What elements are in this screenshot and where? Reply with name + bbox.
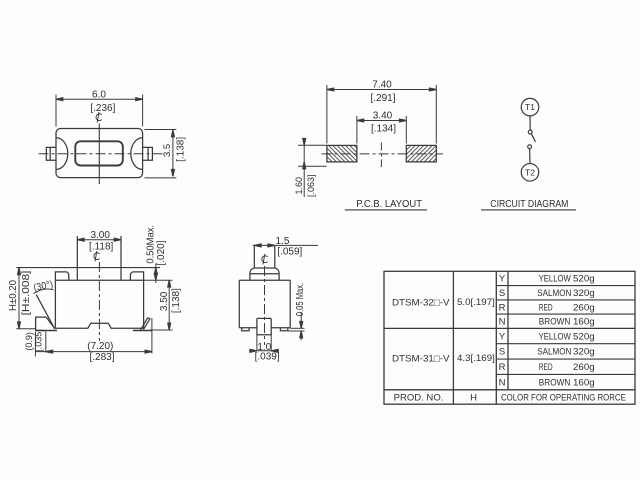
- wire contact to T2: [529, 149, 531, 164]
- svg-text:R: R: [499, 302, 506, 313]
- svg-text:0.05 Max.: 0.05 Max.: [295, 283, 306, 317]
- footer divider: [384, 389, 635, 391]
- svg-text:3.5: 3.5: [162, 144, 173, 157]
- collar top: [250, 273, 279, 275]
- horizontal centerline top view: [39, 153, 165, 155]
- dimension 1.60: [298, 139, 327, 197]
- svg-text:P.C.B. LAYOUT: P.C.B. LAYOUT: [356, 199, 422, 210]
- right foot seating line: [133, 330, 152, 332]
- svg-text:YELLOW: YELLOW: [539, 274, 571, 285]
- vertical centerline pcb: [380, 143, 382, 168]
- svg-text:PROD. NO.: PROD. NO.: [394, 392, 444, 403]
- svg-text:Y: Y: [499, 331, 506, 342]
- svg-text:RED: RED: [539, 362, 553, 373]
- svg-text:260g: 260g: [573, 362, 595, 373]
- underline pcb title: [345, 209, 427, 211]
- svg-text:R: R: [499, 362, 506, 373]
- svg-text:1.5: 1.5: [276, 236, 290, 247]
- svg-text:RED: RED: [539, 302, 553, 313]
- horizontal centerline pcb: [322, 153, 444, 155]
- center button rounded rect: [75, 141, 123, 165]
- dimension 6.0 line: [56, 95, 143, 127]
- left foot seating line: [36, 330, 57, 332]
- svg-text:6.0: 6.0: [92, 90, 106, 101]
- dimension 1.5 top: [253, 244, 319, 246]
- contact node upper: [528, 130, 532, 134]
- svg-text:T2: T2: [525, 167, 535, 177]
- svg-text:3.40: 3.40: [373, 110, 393, 121]
- body right side: [143, 280, 145, 329]
- dimension 3.5 line: [145, 130, 177, 178]
- svg-text:BROWN: BROWN: [539, 377, 571, 388]
- svg-text:260g: 260g: [573, 302, 595, 313]
- svg-text:3.00: 3.00: [90, 230, 110, 241]
- right foot side view: [280, 328, 287, 331]
- row group divider: [384, 327, 635, 329]
- right semicircle recess: [131, 138, 143, 170]
- underline circuit title: [481, 209, 576, 211]
- svg-text:N: N: [499, 317, 506, 328]
- left lead 30 deg slant: [36, 295, 54, 329]
- right solder pad hatched: [406, 145, 436, 162]
- centerline symbol front view: [94, 251, 100, 262]
- svg-text:[H±.008]: [H±.008]: [21, 270, 32, 315]
- svg-text:[.059]: [.059]: [277, 246, 302, 257]
- vertical centerline top view: [98, 124, 100, 185]
- svg-text:[.063]: [.063]: [306, 174, 316, 197]
- dimension 7.40: [327, 85, 436, 144]
- right terminal tab: [143, 147, 153, 160]
- svg-text:YELLOW: YELLOW: [539, 331, 571, 342]
- svg-text:S: S: [499, 288, 505, 299]
- centerline symbol side view: [262, 254, 268, 265]
- svg-text:H±0.20: H±0.20: [8, 280, 19, 311]
- dimension 3.50 vertical: [168, 280, 170, 330]
- svg-text:320g: 320g: [573, 288, 595, 299]
- svg-text:4.3[.169]: 4.3[.169]: [457, 353, 495, 364]
- terminal T1 circle: [521, 98, 539, 116]
- svg-text:5.0[.197]: 5.0[.197]: [457, 297, 495, 308]
- left foot side view: [242, 328, 249, 331]
- vertical centerline side view: [264, 266, 266, 345]
- left solder pad hatched: [327, 145, 357, 162]
- svg-text:Y: Y: [499, 274, 506, 285]
- 0.05 extension lines: [290, 327, 304, 329]
- dimension 1.0 extensions: [256, 335, 258, 352]
- collar right fillet: [275, 268, 279, 280]
- right top bump: [130, 272, 143, 280]
- svg-text:SALMON: SALMON: [537, 347, 571, 358]
- body bottom with center boss: [55, 323, 143, 328]
- svg-text:[.138]: [.138]: [171, 288, 182, 313]
- 0.05 dimension arrows: [300, 312, 302, 328]
- svg-text:COLOR FOR OPERATING RORCE: COLOR FOR OPERATING RORCE: [501, 392, 626, 403]
- body sides: [238, 280, 240, 328]
- switch arm: [531, 134, 535, 142]
- left top bump: [55, 272, 68, 280]
- dimension 1.0 line: [249, 350, 279, 352]
- svg-text:1.60: 1.60: [294, 177, 304, 195]
- bottom extension 3.50: [150, 329, 173, 331]
- svg-text:N: N: [499, 377, 506, 388]
- body left side: [54, 280, 56, 328]
- left lead inner slant: [46, 317, 55, 329]
- svg-text:DTSM-31□-V: DTSM-31□-V: [392, 354, 450, 365]
- column line 2: [495, 271, 497, 404]
- svg-text:7.40: 7.40: [372, 80, 392, 91]
- button sides front view: [76, 236, 78, 280]
- dimension 3.40: [357, 116, 406, 144]
- contact node lower: [528, 145, 532, 149]
- collar left fillet: [250, 268, 254, 280]
- stem step line: [254, 267, 274, 269]
- sub row lines group 1: [496, 285, 635, 287]
- centerline symbol top view: [96, 112, 102, 123]
- column line 3: [507, 271, 509, 390]
- left lead tip outline: [36, 317, 47, 330]
- svg-text:(30°): (30°): [33, 279, 54, 294]
- left terminal tab: [46, 147, 56, 160]
- svg-text:[.138]: [.138]: [176, 137, 187, 162]
- center locating boss: [257, 318, 271, 334]
- dimension 0.50Max vertical line: [155, 264, 157, 284]
- wire T1 to contact: [529, 116, 531, 130]
- svg-text:[.236]: [.236]: [90, 103, 115, 114]
- dimension H left: [18, 268, 20, 329]
- (7.20) dimension line: [36, 351, 152, 353]
- svg-text:160g: 160g: [573, 317, 595, 328]
- svg-text:3.50: 3.50: [159, 291, 170, 311]
- body bottom: [239, 327, 290, 329]
- terminal T2 circle: [521, 164, 539, 182]
- svg-text:[.283]: [.283]: [89, 352, 114, 363]
- svg-text:320g: 320g: [573, 347, 595, 358]
- (7.20) right extension: [151, 318, 153, 353]
- bottom extension line H: [16, 328, 35, 330]
- vertical centerline front view: [98, 262, 100, 341]
- column line 1: [452, 271, 454, 404]
- body top edge: [55, 279, 143, 281]
- left semicircle recess: [56, 138, 68, 170]
- svg-text:SALMON: SALMON: [537, 288, 571, 299]
- 30 deg arc: [34, 289, 54, 294]
- top line across button top (H and 0.50 extension): [16, 267, 160, 269]
- svg-text:[.039]: [.039]: [255, 352, 280, 363]
- svg-text:DTSM-32□-V: DTSM-32□-V: [392, 298, 450, 309]
- svg-text:[.020]: [.020]: [156, 240, 167, 265]
- svg-text:[.035]: [.035]: [33, 329, 43, 352]
- svg-text:[.118]: [.118]: [89, 241, 113, 252]
- svg-text:[.134]: [.134]: [371, 124, 396, 135]
- table outer border: [384, 271, 635, 404]
- body top side view: [239, 279, 290, 281]
- svg-text:[.291]: [.291]: [370, 93, 395, 104]
- stem sides: [253, 245, 255, 268]
- switch body outline top view: [56, 129, 143, 178]
- svg-text:160g: 160g: [573, 377, 595, 388]
- svg-text:S: S: [499, 347, 505, 358]
- svg-text:0.50Max.: 0.50Max.: [146, 225, 157, 264]
- svg-text:520g: 520g: [573, 331, 595, 342]
- svg-text:(7.20): (7.20): [87, 341, 113, 352]
- svg-text:CIRCUIT DIAGRAM: CIRCUIT DIAGRAM: [490, 199, 568, 210]
- right lead bent strip: [141, 318, 150, 330]
- dimension 3.00: [77, 239, 121, 241]
- sub row lines group 2: [496, 343, 635, 345]
- svg-text:520g: 520g: [573, 274, 595, 285]
- svg-text:T1: T1: [525, 102, 535, 112]
- svg-text:BROWN: BROWN: [539, 317, 571, 328]
- (0.9) extension lines: [34, 332, 36, 357]
- body top extension to right: [144, 279, 173, 281]
- svg-text:H: H: [470, 392, 477, 403]
